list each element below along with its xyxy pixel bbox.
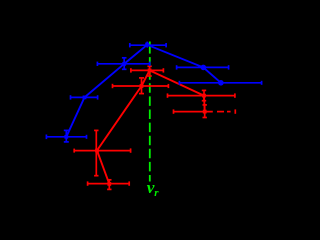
red marker R3 (140, 84, 144, 88)
blue point B4 vertical error bar (146, 42, 148, 48)
red point R6 vertical error bar (203, 105, 207, 118)
blue point B1 vertical error bar (64, 130, 69, 142)
blue series (46, 42, 261, 142)
blue marker B3 (122, 62, 126, 66)
blue marker B1 (64, 135, 68, 139)
red point R1 vertical error bar (107, 180, 111, 190)
svg-text:r: r (154, 187, 159, 199)
blue marker B4 (145, 43, 149, 47)
red marker R6 (203, 110, 207, 114)
blue marker B6 (circle) (218, 80, 224, 86)
red point R6 horizontal error bar (right part dashed) (174, 109, 236, 113)
red point R2 horizontal error bar (74, 148, 131, 152)
blue point B5 horizontal error bar (177, 65, 229, 69)
blue point B4 horizontal error bar (130, 43, 166, 47)
red point R5 vertical error bar (202, 90, 206, 100)
red point R5 horizontal error bar (168, 93, 235, 97)
red series (74, 66, 235, 189)
blue point B3 horizontal error bar (97, 62, 149, 66)
red point R3 horizontal error bar (113, 84, 169, 88)
green dashed vertical reference line nu_r (dashed part) (149, 57, 151, 181)
blue point B2 horizontal error bar (71, 95, 98, 99)
blue marker B2 (83, 96, 87, 100)
red point R3 vertical error bar (139, 78, 144, 94)
blue point B1 horizontal error bar (46, 135, 86, 140)
green dashed vertical reference line nu_r (first dash) (149, 42, 151, 54)
blue point B6 horizontal error bar (179, 81, 261, 85)
red point R4 vertical error bar (147, 66, 151, 76)
red polyline R1-R2-R3-R4-R5-R6 (97, 70, 205, 183)
red point R4 horizontal error bar (131, 68, 164, 72)
red marker R2 (95, 149, 99, 153)
red marker R5 (202, 94, 206, 98)
blue marker B5 (circle) (201, 65, 207, 71)
blue point B3 vertical error bar (122, 58, 127, 70)
red point R2 vertical error bar (94, 130, 98, 175)
red marker R1 (107, 182, 111, 186)
label nu_r (147, 178, 160, 199)
red point R1 horizontal error bar (88, 181, 130, 185)
red marker R4 (148, 69, 152, 73)
blue polyline B1-B2-B3-B4-B5-B6 (66, 45, 221, 137)
